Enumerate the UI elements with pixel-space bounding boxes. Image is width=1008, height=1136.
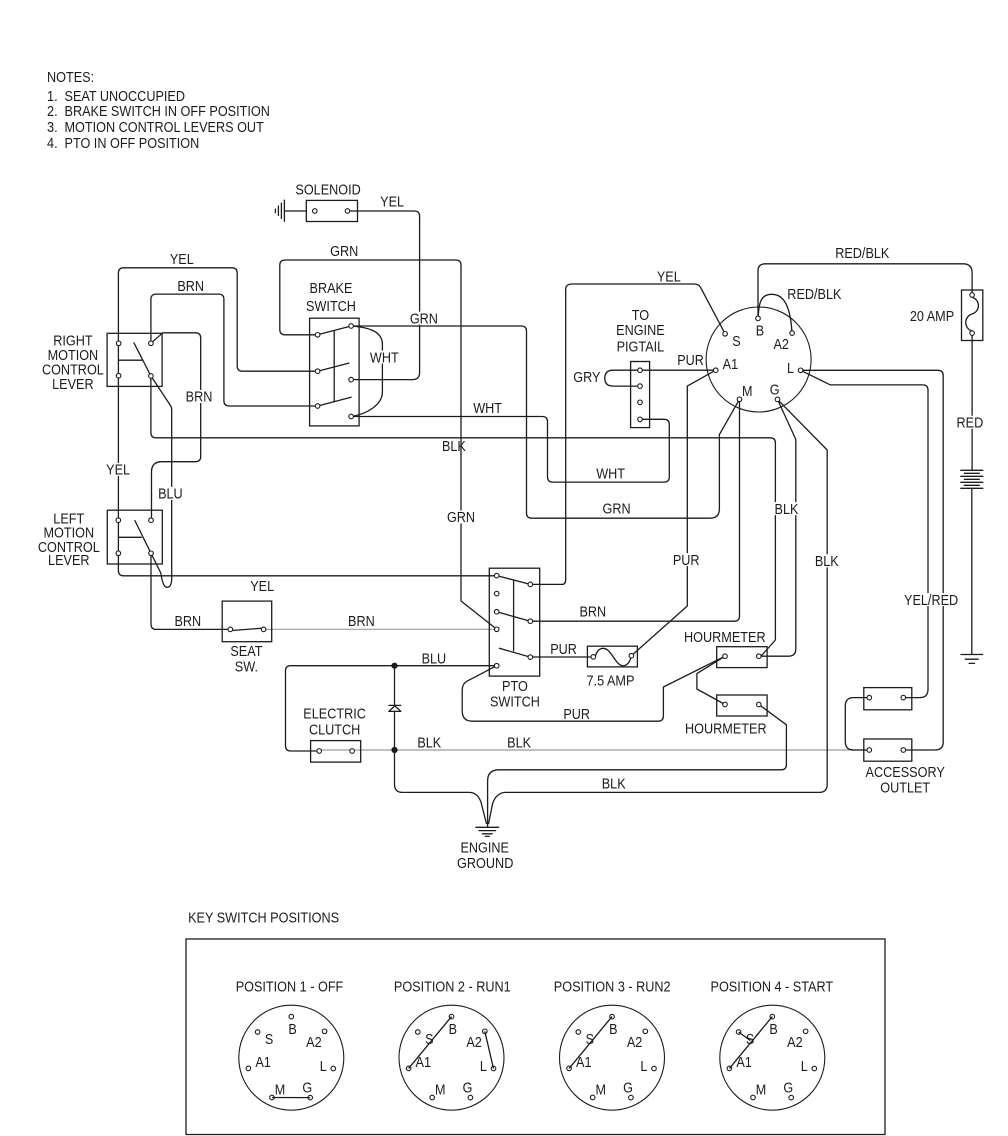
svg-text:4.: 4. — [47, 136, 58, 152]
svg-text:BLU: BLU — [158, 487, 183, 503]
svg-text:RED/BLK: RED/BLK — [835, 246, 889, 262]
svg-text:A2: A2 — [306, 1035, 322, 1051]
svg-text:POSITION 2 - RUN1: POSITION 2 - RUN1 — [394, 980, 511, 996]
svg-text:A1: A1 — [416, 1055, 432, 1071]
svg-text:POSITION 1 - OFF: POSITION 1 - OFF — [236, 980, 344, 996]
svg-text:L: L — [320, 1059, 327, 1075]
svg-text:NOTES:: NOTES: — [47, 70, 94, 86]
svg-text:CLUTCH: CLUTCH — [309, 722, 360, 738]
svg-text:G: G — [463, 1081, 473, 1097]
svg-text:BLK: BLK — [775, 502, 799, 518]
svg-text:BRN: BRN — [348, 614, 375, 630]
svg-text:L: L — [640, 1059, 647, 1075]
svg-text:L: L — [787, 361, 794, 377]
svg-text:M: M — [756, 1082, 767, 1098]
svg-text:BRAKE SWITCH IN OFF POSITION: BRAKE SWITCH IN OFF POSITION — [65, 104, 270, 120]
svg-text:20 AMP: 20 AMP — [910, 309, 954, 325]
svg-text:SWITCH: SWITCH — [490, 694, 540, 710]
svg-text:WHT: WHT — [473, 401, 502, 417]
svg-text:POSITION 4 - START: POSITION 4 - START — [711, 980, 834, 996]
svg-text:WHT: WHT — [596, 467, 625, 483]
svg-text:BLK: BLK — [442, 439, 466, 455]
svg-text:A1: A1 — [723, 357, 739, 373]
svg-text:G: G — [302, 1081, 312, 1097]
svg-text:YEL/RED: YEL/RED — [904, 593, 958, 609]
svg-text:LEVER: LEVER — [52, 377, 94, 393]
svg-text:HOURMETER: HOURMETER — [685, 722, 767, 738]
svg-text:ACCESSORY: ACCESSORY — [866, 765, 946, 781]
svg-text:GRN: GRN — [603, 502, 631, 518]
svg-text:B: B — [769, 1022, 777, 1038]
svg-text:2.: 2. — [47, 104, 58, 120]
svg-text:KEY SWITCH POSITIONS: KEY SWITCH POSITIONS — [188, 911, 339, 927]
svg-text:BLK: BLK — [815, 554, 839, 570]
svg-text:HOURMETER: HOURMETER — [684, 630, 766, 646]
svg-text:A1: A1 — [736, 1055, 752, 1071]
svg-text:A2: A2 — [787, 1035, 803, 1051]
svg-text:RED/BLK: RED/BLK — [787, 287, 841, 303]
svg-text:A2: A2 — [773, 337, 789, 353]
svg-text:SEAT UNOCCUPIED: SEAT UNOCCUPIED — [65, 89, 186, 105]
svg-text:YEL: YEL — [380, 195, 404, 211]
svg-text:YEL: YEL — [250, 579, 274, 595]
svg-text:LEVER: LEVER — [48, 553, 90, 569]
svg-text:MOTION CONTROL LEVERS OUT: MOTION CONTROL LEVERS OUT — [65, 120, 264, 136]
svg-text:G: G — [770, 382, 780, 398]
svg-text:SWITCH: SWITCH — [306, 299, 356, 315]
svg-text:SOLENOID: SOLENOID — [295, 183, 360, 199]
svg-text:L: L — [480, 1059, 487, 1075]
svg-text:BRN: BRN — [186, 390, 213, 406]
svg-text:BLU: BLU — [422, 652, 447, 668]
svg-text:A2: A2 — [466, 1035, 482, 1051]
svg-text:GRN: GRN — [447, 510, 475, 526]
svg-text:7.5 AMP: 7.5 AMP — [587, 673, 635, 689]
svg-text:BLK: BLK — [602, 776, 626, 792]
svg-text:BRN: BRN — [174, 614, 201, 630]
svg-text:A1: A1 — [576, 1055, 592, 1071]
svg-text:S: S — [425, 1032, 433, 1048]
svg-text:YEL: YEL — [106, 463, 130, 479]
svg-text:GROUND: GROUND — [457, 856, 513, 872]
svg-text:PUR: PUR — [550, 642, 577, 658]
svg-text:SW.: SW. — [235, 660, 258, 676]
svg-text:B: B — [609, 1022, 617, 1038]
svg-text:M: M — [742, 384, 753, 400]
svg-text:S: S — [746, 1032, 754, 1048]
svg-text:WHT: WHT — [370, 350, 399, 366]
svg-text:GRY: GRY — [573, 370, 600, 386]
svg-text:S: S — [265, 1032, 273, 1048]
svg-text:A2: A2 — [627, 1035, 643, 1051]
svg-text:POSITION 3 - RUN2: POSITION 3 - RUN2 — [554, 980, 671, 996]
svg-text:PTO IN OFF POSITION: PTO IN OFF POSITION — [65, 136, 200, 152]
svg-text:M: M — [435, 1082, 446, 1098]
svg-text:PIGTAIL: PIGTAIL — [617, 339, 665, 355]
svg-text:PUR: PUR — [677, 353, 704, 369]
svg-text:M: M — [595, 1082, 606, 1098]
svg-text:YEL: YEL — [657, 270, 681, 286]
svg-text:G: G — [783, 1081, 793, 1097]
svg-text:1.: 1. — [47, 89, 58, 105]
svg-text:GRN: GRN — [330, 244, 358, 260]
svg-text:B: B — [449, 1022, 457, 1038]
svg-text:BLK: BLK — [417, 736, 441, 752]
svg-text:RED: RED — [957, 415, 984, 431]
svg-text:M: M — [275, 1082, 286, 1098]
svg-text:G: G — [623, 1081, 633, 1097]
svg-text:GRN: GRN — [410, 311, 438, 327]
svg-text:S: S — [586, 1032, 594, 1048]
svg-text:TO: TO — [632, 308, 649, 324]
svg-text:ENGINE: ENGINE — [460, 840, 509, 856]
svg-text:BRAKE: BRAKE — [310, 281, 353, 297]
svg-text:OUTLET: OUTLET — [880, 781, 930, 797]
svg-text:SEAT: SEAT — [230, 644, 262, 660]
svg-text:BRN: BRN — [579, 605, 606, 621]
svg-text:MOTION: MOTION — [48, 348, 99, 364]
svg-text:BRN: BRN — [177, 279, 204, 295]
svg-text:PTO: PTO — [502, 679, 528, 695]
svg-text:S: S — [732, 334, 740, 350]
svg-text:B: B — [288, 1022, 296, 1038]
svg-text:PUR: PUR — [563, 707, 590, 723]
svg-text:A1: A1 — [255, 1055, 271, 1071]
svg-text:ENGINE: ENGINE — [616, 323, 665, 339]
svg-text:YEL: YEL — [170, 252, 194, 268]
svg-text:B: B — [756, 324, 764, 340]
svg-text:3.: 3. — [47, 120, 58, 136]
svg-text:L: L — [801, 1059, 808, 1075]
svg-text:ELECTRIC: ELECTRIC — [303, 706, 366, 722]
svg-text:BLK: BLK — [507, 736, 531, 752]
svg-text:PUR: PUR — [673, 553, 700, 569]
